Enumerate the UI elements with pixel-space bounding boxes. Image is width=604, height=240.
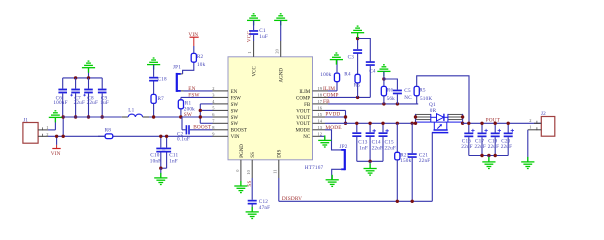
wire DISDRV xyxy=(279,178,433,201)
junction SW-rail C9 xyxy=(101,115,104,118)
junction POUT C16 xyxy=(467,122,470,125)
svg-text:R8: R8 xyxy=(105,128,112,134)
svg-text:22uF: 22uF xyxy=(501,144,512,150)
capacitor C20 xyxy=(501,123,514,155)
wire J1 pin1 to ground xyxy=(48,118,55,130)
svg-text:2: 2 xyxy=(529,118,531,123)
U1 left pin numbers xyxy=(212,86,215,136)
svg-text:EN: EN xyxy=(188,86,195,92)
junction C10 top xyxy=(159,135,162,138)
wire SW tie vertical xyxy=(200,104,212,123)
svg-text:AGND: AGND xyxy=(280,68,285,83)
svg-text:R7: R7 xyxy=(158,96,165,102)
wire SW rail xyxy=(149,116,213,118)
svg-text:510K: 510K xyxy=(420,96,432,102)
svg-text:12: 12 xyxy=(318,131,322,136)
junction rail C13 xyxy=(355,122,358,125)
wire JP2 to ground xyxy=(332,169,341,179)
ground output caps xyxy=(482,157,495,169)
junction DISDRV R21 xyxy=(396,200,399,203)
svg-text:10k: 10k xyxy=(197,62,206,68)
svg-text:100k: 100k xyxy=(320,72,331,78)
svg-text:22uF: 22uF xyxy=(475,144,486,150)
capacitor C16 xyxy=(461,123,474,155)
junction Q1 right top xyxy=(461,115,464,118)
U1 top pin stubs VCC AGND xyxy=(254,41,281,57)
U1 bottom pin stubs PGND SS DIS xyxy=(241,160,279,186)
svg-text:VIN: VIN xyxy=(231,135,240,140)
wire BOOST riser xyxy=(181,117,183,130)
svg-text:HT7167: HT7167 xyxy=(305,165,324,171)
ground PGND xyxy=(234,181,247,193)
ground C10 C11 xyxy=(154,173,167,185)
junction bus stem xyxy=(487,154,490,157)
junction VIN-flag xyxy=(55,135,58,138)
net flag VIN at R2 xyxy=(188,32,198,54)
U1 top pin names xyxy=(253,66,285,83)
svg-text:MODE: MODE xyxy=(295,129,310,134)
svg-text:100uF: 100uF xyxy=(53,100,67,106)
svg-text:13: 13 xyxy=(318,125,323,130)
svg-text:10: 10 xyxy=(246,169,251,174)
svg-text:R2: R2 xyxy=(197,54,204,60)
svg-text:7: 7 xyxy=(212,118,215,123)
svg-text:22nF: 22nF xyxy=(419,158,430,164)
wire J2 pin1 to ground xyxy=(527,130,529,162)
ground J1 pin1 xyxy=(49,111,62,123)
ground VCC top xyxy=(247,14,260,26)
junction SW-rail R1 xyxy=(179,115,182,118)
wire ILIM xyxy=(328,90,337,92)
svg-text:C14: C14 xyxy=(372,139,381,145)
junction bus C17 xyxy=(480,154,483,157)
wire gnd rail riser xyxy=(88,68,90,78)
junction rail C21 xyxy=(411,122,414,125)
junction rail R21 xyxy=(396,122,399,125)
svg-text:22uF: 22uF xyxy=(372,146,383,152)
U1 left pin stubs xyxy=(213,91,229,136)
net flag VIN at J1 xyxy=(51,136,61,157)
resistor R21 xyxy=(395,123,412,201)
svg-text:15: 15 xyxy=(318,112,323,117)
svg-text:4: 4 xyxy=(212,99,215,104)
capacitor C21 xyxy=(408,123,431,201)
capacitor C18 xyxy=(149,65,167,83)
ground C12 xyxy=(246,207,259,219)
junction POUT C19 xyxy=(494,122,497,125)
wire COMP xyxy=(328,96,370,98)
U1 top pin numbers xyxy=(247,48,279,53)
svg-text:0.1uF: 0.1uF xyxy=(177,137,190,143)
svg-text:22uF: 22uF xyxy=(87,100,98,106)
wire bus gnd stem xyxy=(369,161,371,168)
junction SW-rail C6 xyxy=(62,115,65,118)
svg-text:FB: FB xyxy=(304,103,311,108)
svg-text:22uF: 22uF xyxy=(488,144,499,150)
svg-text:SW: SW xyxy=(231,116,239,121)
svg-text:47nF: 47nF xyxy=(259,205,270,211)
svg-text:L1: L1 xyxy=(128,108,134,114)
Q1 gate wire xyxy=(431,133,433,202)
capacitor C17 xyxy=(475,123,488,155)
U1 left pin names xyxy=(231,90,247,140)
U1 right pin names xyxy=(295,90,310,140)
svg-text:1uF: 1uF xyxy=(259,34,268,40)
junction FB R6 xyxy=(382,102,385,105)
svg-text:22uF: 22uF xyxy=(461,144,472,150)
wire MODE to JP2 xyxy=(325,130,341,150)
jumper JP2 xyxy=(340,144,348,170)
svg-text:NC: NC xyxy=(303,135,311,140)
svg-text:3: 3 xyxy=(212,92,215,97)
junction SW-rail C8 xyxy=(87,115,90,118)
capacitor C15 xyxy=(379,123,396,161)
junction C3 gnd xyxy=(356,37,359,40)
ground AGND top xyxy=(274,14,287,26)
svg-text:C18: C18 xyxy=(158,77,167,83)
svg-text:C13: C13 xyxy=(358,139,367,145)
svg-text:5: 5 xyxy=(212,105,215,110)
svg-text:1: 1 xyxy=(529,125,531,130)
junction C11 top xyxy=(165,135,168,138)
svg-text:VOUT: VOUT xyxy=(296,122,310,127)
junction bottom bus xyxy=(368,160,371,163)
ground C13-C15 xyxy=(364,164,377,176)
svg-text:PGND: PGND xyxy=(240,144,245,158)
junction rail C14 xyxy=(368,122,371,125)
junction DISDRV C21 xyxy=(411,200,414,203)
junction VOUT riser p15 xyxy=(344,115,347,118)
ground FB divider xyxy=(377,65,390,77)
svg-text:DIS: DIS xyxy=(278,149,283,157)
svg-text:FSW: FSW xyxy=(188,93,199,99)
junction riser xyxy=(62,135,65,138)
junction rail C7 xyxy=(74,76,77,79)
wire VIN line xyxy=(48,135,213,137)
svg-text:VIN: VIN xyxy=(51,151,61,157)
svg-text:JP2: JP2 xyxy=(340,144,348,150)
wire NC to ground xyxy=(320,136,325,140)
wire VIN-to-L1 rail xyxy=(63,116,122,118)
svg-text:JP1: JP1 xyxy=(173,65,181,71)
svg-text:C5: C5 xyxy=(404,88,411,94)
svg-text:J2: J2 xyxy=(541,111,546,117)
connector J1 xyxy=(23,118,49,144)
ground COMP network xyxy=(351,26,364,38)
svg-text:R5: R5 xyxy=(354,83,361,89)
junction VOUT riser rail xyxy=(344,122,347,125)
svg-text:150k: 150k xyxy=(400,158,411,164)
svg-text:VOUT: VOUT xyxy=(296,109,310,114)
svg-text:BOOST: BOOST xyxy=(193,124,212,130)
junction Q1 left top xyxy=(414,115,417,118)
svg-text:J1: J1 xyxy=(23,118,28,124)
wire input cap gnd rail xyxy=(63,77,102,79)
junction SW-rail R7 xyxy=(152,115,155,118)
junction COMP network xyxy=(356,96,359,99)
Q1 body diode xyxy=(431,116,437,118)
ground NC xyxy=(318,135,331,147)
svg-text:19: 19 xyxy=(318,86,323,91)
resistor R6 xyxy=(381,71,395,104)
svg-text:14: 14 xyxy=(318,118,323,123)
capacitor C8 xyxy=(83,78,98,117)
capacitor C12 xyxy=(248,178,271,212)
resistor R1 xyxy=(178,97,212,117)
resistor R7 xyxy=(151,82,164,118)
svg-text:PVDD: PVDD xyxy=(325,112,340,118)
ground JP2 xyxy=(326,175,339,187)
svg-text:18: 18 xyxy=(318,92,323,97)
svg-text:1uF: 1uF xyxy=(100,100,109,106)
svg-text:11: 11 xyxy=(273,170,278,174)
svg-text:SW: SW xyxy=(231,109,239,114)
jumper JP1 xyxy=(173,65,184,92)
svg-text:FSW: FSW xyxy=(231,96,242,101)
wire C13-C15 bottom bus xyxy=(357,160,383,162)
junction POUT C17 xyxy=(480,122,483,125)
capacitor C1 xyxy=(249,20,268,41)
resistor R4 100k on ILIM xyxy=(320,60,339,91)
U1 bottom pin names xyxy=(240,144,283,158)
svg-text:C15: C15 xyxy=(385,139,394,145)
svg-text:EN: EN xyxy=(231,90,238,95)
svg-text:SW: SW xyxy=(184,112,192,118)
capacitor C11 xyxy=(161,136,179,168)
Q1 right pin stubs xyxy=(448,113,463,115)
wire VOUT rail xyxy=(325,122,416,124)
connector J2 xyxy=(528,111,555,136)
U1 right pin numbers xyxy=(318,86,323,136)
capacitor C13 xyxy=(352,123,368,161)
ground J2 xyxy=(521,157,534,169)
junction Q1 left rail xyxy=(414,122,417,125)
wire output caps bottom bus xyxy=(469,155,508,157)
svg-text:56k: 56k xyxy=(387,96,396,102)
transistor Q1 xyxy=(416,102,463,201)
capacitor C10 xyxy=(150,136,166,168)
svg-text:POUT: POUT xyxy=(486,118,501,124)
junction POUT C20 xyxy=(507,122,510,125)
wire R2 to JP1 xyxy=(183,62,194,74)
svg-text:16: 16 xyxy=(318,105,323,110)
svg-text:20: 20 xyxy=(274,48,279,53)
junction SW tie p5 xyxy=(199,109,202,112)
op-amp U1 HT7167 body xyxy=(228,57,323,171)
capacitor C7 xyxy=(70,78,85,117)
wire riser VIN to input cap rail xyxy=(62,117,64,136)
wire EN xyxy=(184,90,213,92)
svg-text:10nF: 10nF xyxy=(150,159,161,165)
ground input bank xyxy=(82,61,95,73)
svg-text:VCC: VCC xyxy=(253,66,258,77)
svg-text:BOOST: BOOST xyxy=(231,129,247,134)
ground C18 top xyxy=(147,58,160,70)
svg-text:VIN: VIN xyxy=(188,32,198,38)
svg-text:ILIM: ILIM xyxy=(299,90,310,95)
Q1 left pin stubs xyxy=(416,113,431,115)
Q1 mosfet channel xyxy=(430,114,432,122)
svg-text:6: 6 xyxy=(212,112,215,117)
wire bus to ground xyxy=(488,156,490,162)
svg-text:22uF: 22uF xyxy=(74,100,85,106)
capacitor C4 xyxy=(358,39,376,98)
capacitor C9 xyxy=(98,78,109,117)
ground ILIM resistor xyxy=(330,53,343,65)
wire VOUT pins riser xyxy=(325,110,346,123)
svg-text:SW: SW xyxy=(231,103,239,108)
svg-text:R6: R6 xyxy=(387,88,394,94)
resistor R2 xyxy=(191,53,205,68)
svg-text:NC: NC xyxy=(404,95,412,101)
svg-text:1: 1 xyxy=(247,51,252,53)
svg-text:22uF: 22uF xyxy=(385,146,396,152)
svg-text:0: 0 xyxy=(235,169,240,172)
svg-text:VCC: VCC xyxy=(247,31,253,43)
capacitor C6 xyxy=(53,78,67,117)
junction SW tie p6 xyxy=(199,115,202,118)
resistor R5 xyxy=(414,76,469,124)
svg-text:1nF: 1nF xyxy=(169,159,178,165)
wire C10 gnd stem xyxy=(160,168,162,178)
junction rail C15 xyxy=(381,122,384,125)
capacitor C3 xyxy=(348,39,363,75)
junction bus C19 xyxy=(494,154,497,157)
svg-text:8: 8 xyxy=(212,125,215,130)
resistor R4 comp xyxy=(344,71,360,97)
junction C10 bottom xyxy=(159,167,162,170)
svg-text:SW: SW xyxy=(231,122,239,127)
svg-text:R5: R5 xyxy=(419,88,426,94)
junction FB C5 xyxy=(396,102,399,105)
resistor R8 xyxy=(98,128,113,139)
svg-text:C3: C3 xyxy=(348,55,355,61)
svg-text:SS: SS xyxy=(251,152,256,158)
svg-text:VOUT: VOUT xyxy=(296,116,310,121)
svg-text:C4: C4 xyxy=(369,69,376,75)
capacitor C5 xyxy=(384,79,412,104)
capacitor C19 xyxy=(488,123,501,155)
U1 bottom pin numbers xyxy=(235,169,278,175)
U1 right pin stubs xyxy=(313,91,329,136)
svg-text:17: 17 xyxy=(318,99,323,104)
junction rail C8 xyxy=(87,76,90,79)
svg-text:COMP: COMP xyxy=(296,96,310,101)
svg-text:1nF: 1nF xyxy=(359,146,368,152)
wire POUT rail xyxy=(463,122,542,124)
capacitor C2 xyxy=(177,125,213,142)
svg-text:9: 9 xyxy=(212,131,215,136)
svg-text:0R: 0R xyxy=(430,108,437,114)
wire FB xyxy=(328,103,418,105)
junction R6 gnd xyxy=(382,77,385,80)
inductor L1 xyxy=(122,108,149,118)
svg-text:DISDRV: DISDRV xyxy=(282,196,302,202)
junction SW-rail C7 xyxy=(74,115,77,118)
svg-text:R4: R4 xyxy=(344,71,351,77)
junction Q1 right rail xyxy=(461,122,464,125)
svg-text:2: 2 xyxy=(212,86,214,91)
wire AGND xyxy=(280,20,282,41)
capacitor C14 xyxy=(366,123,383,161)
